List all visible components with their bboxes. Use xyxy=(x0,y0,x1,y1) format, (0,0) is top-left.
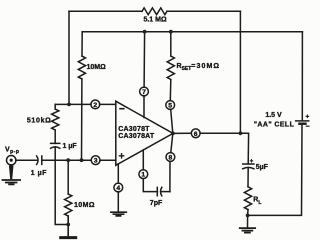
wire left bias vertical upper xyxy=(81,32,83,56)
node input 10M lower xyxy=(66,158,70,162)
svg-text:5µF: 5µF xyxy=(256,164,269,171)
pin 2 xyxy=(91,100,100,109)
svg-text:10MΩ: 10MΩ xyxy=(87,64,107,71)
wire pin1 down and right to 7pF xyxy=(143,179,157,192)
opamp minus sign xyxy=(119,108,124,110)
svg-text:510kΩ: 510kΩ xyxy=(27,118,52,125)
wire series cap to pin3 xyxy=(42,159,92,161)
wire right feedback vertical to output node xyxy=(239,11,241,133)
op-amp U1 triangle xyxy=(116,101,173,165)
wire pin2 to opamp xyxy=(100,103,116,105)
capacitor 1µF input series xyxy=(37,156,42,165)
pin 4 xyxy=(114,183,123,192)
svg-text:1 µF: 1 µF xyxy=(63,143,78,150)
ground under Vp-p xyxy=(2,180,20,184)
wire 510k to 1µF bias cap xyxy=(54,130,56,143)
node ground bottom-left xyxy=(66,223,70,227)
svg-text:1.5 V: 1.5 V xyxy=(265,112,282,119)
node RL bottom xyxy=(246,214,250,218)
svg-text:5: 5 xyxy=(168,103,172,110)
svg-text:1: 1 xyxy=(141,172,145,179)
svg-text:6: 6 xyxy=(194,131,198,138)
resistor 10MΩ upper xyxy=(78,56,85,79)
wire bias cap bottom crossing input wire to bottom corner xyxy=(55,147,68,225)
wire top rail right segment xyxy=(167,10,240,12)
capacitor 1µF bias plates xyxy=(51,143,60,148)
svg-text:CA3078T: CA3078T xyxy=(118,126,150,133)
resistor 10MΩ lower xyxy=(65,194,72,216)
wire pin3 to opamp xyxy=(100,159,116,161)
node input 10M upper xyxy=(80,158,84,162)
wire 5µF to RL xyxy=(247,168,249,187)
wire bottom return to battery xyxy=(248,125,302,216)
resistor R feedback 5.1 MΩ xyxy=(142,8,167,15)
terminal Vp-p input xyxy=(7,156,16,165)
wire rail2 to RSET xyxy=(170,32,172,56)
svg-text:8: 8 xyxy=(169,155,173,162)
pin 5 xyxy=(166,101,175,110)
wire rail2 to battery top xyxy=(301,32,303,121)
wire pin5 to output apex xyxy=(171,109,173,133)
node output right xyxy=(239,131,243,135)
wire apex to pin6 xyxy=(173,132,191,134)
resistor 510kΩ xyxy=(52,109,59,130)
ground under RL xyxy=(240,228,256,233)
svg-text:4: 4 xyxy=(116,185,120,192)
svg-text:7: 7 xyxy=(142,89,146,96)
pin 6 xyxy=(191,129,200,138)
node pin2 junction xyxy=(67,103,71,107)
capacitor 7pF plates xyxy=(157,187,162,196)
wire pin4 to ground xyxy=(117,192,119,212)
svg-text:+: + xyxy=(250,159,254,165)
resistor RSET 30MΩ xyxy=(167,56,174,80)
node rail2 RSET xyxy=(169,30,173,34)
ground under pin4 xyxy=(111,212,126,216)
wire opamp bottom edge to pin1 xyxy=(142,150,144,170)
pin 8 xyxy=(166,153,175,162)
svg-text:+: + xyxy=(306,114,310,121)
pin 3 xyxy=(91,156,100,165)
wire 510k top lead xyxy=(54,104,56,109)
wire pin6 to output node xyxy=(200,133,249,164)
wire RL to bottom node xyxy=(247,210,249,216)
wire opamp bottom to pin4 xyxy=(117,164,119,183)
resistor RL xyxy=(244,187,251,210)
wire pin8 down to 7pF path xyxy=(169,161,171,191)
svg-text:3: 3 xyxy=(94,158,98,165)
svg-text:CA3078AT: CA3078AT xyxy=(118,133,155,140)
svg-text:2: 2 xyxy=(93,102,97,109)
svg-text:10MΩ: 10MΩ xyxy=(74,202,95,209)
node output apex xyxy=(171,132,175,136)
wire supply rail 2 xyxy=(82,31,302,33)
node rail2 pin7 xyxy=(143,30,147,34)
wire rail2 to pin7 xyxy=(143,32,146,87)
wire apex to pin8 xyxy=(171,133,173,152)
wire 10MΩ lower to bottom ground junction xyxy=(67,216,69,237)
svg-text:"AA" CELL: "AA" CELL xyxy=(254,121,295,128)
wire top rail left segment xyxy=(69,10,142,12)
wire 10MΩ lower top lead xyxy=(67,160,69,194)
pin 7 xyxy=(140,87,149,96)
svg-text:7pF: 7pF xyxy=(150,200,163,207)
battery BT1 1.5V AA cell plates xyxy=(296,120,309,122)
wire pin7 to opamp top edge xyxy=(143,96,145,118)
wire terminal to ground xyxy=(9,166,14,180)
wire left feedback vertical xyxy=(68,11,70,104)
wire RSET to pin5 xyxy=(169,80,172,101)
ground bottom-left xyxy=(61,236,76,239)
wire pin2 net horizontal xyxy=(55,103,91,105)
wire bottom node to ground xyxy=(247,215,249,227)
capacitor 5µF output plates xyxy=(243,164,254,169)
wire 7pF to pin8 leg xyxy=(161,191,170,193)
svg-text:−: − xyxy=(306,124,310,131)
svg-text:1 µF: 1 µF xyxy=(31,170,47,177)
opamp plus sign xyxy=(119,153,125,159)
svg-text:5.1 MΩ: 5.1 MΩ xyxy=(143,17,167,24)
wire input to series cap xyxy=(16,159,37,161)
pin 1 xyxy=(139,170,148,179)
wire 10MΩ upper lower lead crossing pin2 wire down to input node xyxy=(81,79,83,160)
